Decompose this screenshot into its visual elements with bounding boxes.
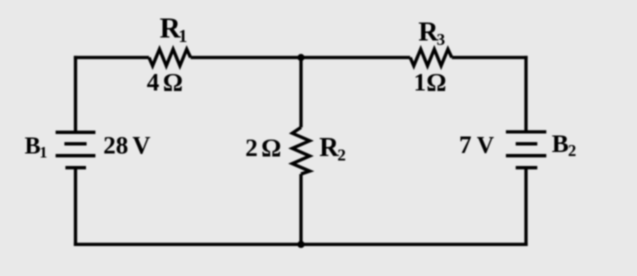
wire middle rail upper (299, 58, 302, 128)
junction node top (297, 54, 304, 61)
svg-text:V: V (477, 133, 495, 159)
wire top-left segment (74, 56, 149, 59)
wire bottom segment right (301, 243, 528, 246)
wire left rail lower (74, 168, 77, 246)
wire right rail upper (524, 56, 527, 132)
wire middle rail lower (299, 174, 302, 244)
svg-text:Ω: Ω (426, 69, 446, 96)
svg-text:Ω: Ω (163, 70, 183, 97)
wire top-right segment (452, 56, 528, 59)
svg-text:2: 2 (245, 135, 258, 162)
resistor R3 (410, 49, 452, 66)
junction node bottom (297, 241, 304, 248)
battery B1 (56, 132, 96, 167)
svg-text:7: 7 (459, 132, 472, 159)
wire R1 to top node (191, 56, 301, 59)
wire left rail upper (74, 56, 77, 132)
wire top node to R3 (301, 56, 410, 59)
wire right rail lower (524, 168, 527, 246)
wire bottom segment left (74, 243, 301, 246)
svg-text:28 V: 28 V (103, 132, 150, 159)
battery B2 (506, 132, 546, 168)
svg-text:4: 4 (147, 70, 160, 97)
resistor R1 (149, 49, 191, 66)
svg-text:Ω: Ω (261, 135, 281, 162)
svg-text:1: 1 (414, 69, 427, 96)
resistor R2 (292, 127, 309, 174)
